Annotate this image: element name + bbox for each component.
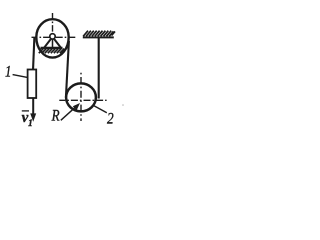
bracket leg right: [53, 38, 61, 48]
ceiling bar bottom line: [83, 36, 114, 38]
bracket leg left: [44, 38, 52, 48]
radius R arrowhead: [73, 103, 80, 110]
svg-text:1: 1: [5, 63, 11, 80]
velocity arrow v1 head: [30, 113, 36, 121]
pulley P2 circle: [66, 83, 96, 111]
pulley P2 axis horizontal centerline: [59, 99, 106, 101]
pulley P1 hub: [50, 34, 55, 39]
radius R arrow shaft: [61, 106, 77, 121]
ceiling hatching: [83, 31, 115, 37]
bracket base line: [41, 47, 63, 49]
svg-text:R: R: [51, 107, 60, 124]
bracket ground hatching: [39, 49, 66, 54]
pulley P1 circle: [36, 19, 68, 57]
scan speck: [122, 104, 124, 106]
velocity arrow v1 shaft: [32, 98, 34, 114]
pulley P1 axis vertical centerline: [52, 13, 54, 35]
bracket center spoke: [52, 38, 54, 48]
pulley P1 axis horizontal centerline: [32, 36, 77, 38]
v1 overbar: [22, 110, 29, 112]
svg-text:1: 1: [28, 119, 33, 129]
block 1 (load): [28, 70, 37, 99]
rope right segment / ceiling rod: [98, 38, 100, 99]
pulley P2 axis vertical centerline: [80, 73, 82, 121]
rope middle segment (pulley P1 to pulley P2): [66, 41, 69, 98]
svg-text:2: 2: [107, 110, 114, 127]
leader line of label 1: [13, 75, 28, 78]
rope left segment (pulley P1 to block 1): [33, 37, 34, 71]
leader line of label 2: [94, 106, 107, 113]
